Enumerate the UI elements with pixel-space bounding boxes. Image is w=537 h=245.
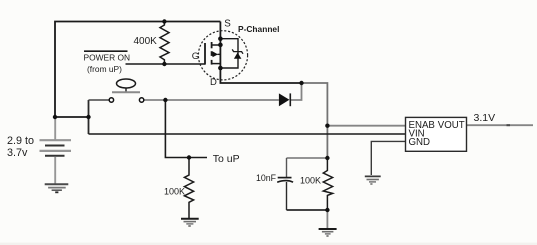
- svg-text:POWER ON: POWER ON: [84, 53, 131, 63]
- wire To-uP branch vertical and horizontal: [165, 100, 189, 158]
- switch S1 left contact: [109, 98, 113, 102]
- switch S1 right contact: [139, 98, 143, 102]
- junction dot 400K top: [162, 19, 166, 23]
- wire To-uP stub: [189, 157, 207, 159]
- ground under R2: [181, 218, 199, 220]
- wire gate line POWER ON to MOSFET gate: [126, 63, 206, 65]
- ground under main node: [319, 228, 337, 230]
- switch S1 bar (gray): [112, 91, 140, 93]
- regulator U1 box: [406, 117, 467, 151]
- svg-text:400K: 400K: [134, 36, 158, 47]
- switch S1 pushbutton actuator: [117, 79, 136, 88]
- junction dot 400K bottom / gate wire: [162, 62, 166, 66]
- wire VOUT 3.1V output (gray): [467, 124, 534, 126]
- transistor Q1 source stub: [212, 44, 221, 46]
- svg-text:G: G: [192, 51, 199, 62]
- wire ENAB line (gray): [327, 125, 405, 127]
- svg-text:3.7v: 3.7v: [7, 147, 28, 159]
- capacitor C1 curved plate: [277, 181, 293, 183]
- svg-text:VOUT: VOUT: [438, 120, 465, 131]
- svg-text:100K: 100K: [300, 175, 321, 185]
- junction dot RC bottom: [325, 208, 329, 212]
- wire VIN line from battery node to regulator: [89, 133, 406, 135]
- resistor R3 100K (hold-up): [323, 158, 332, 210]
- faint scan band at bottom edge: [0, 243, 537, 245]
- svg-text:2.9 to: 2.9 to: [7, 135, 34, 147]
- wire junction to diode anode (gray): [165, 99, 279, 101]
- resistor R1 400K: [160, 22, 169, 65]
- wire regulator GND lead: [371, 141, 405, 175]
- wire button left leg and VIN drop: [88, 100, 90, 134]
- battery B1 plate short 1: [45, 145, 65, 147]
- node battery junction wire: [55, 116, 89, 118]
- svg-text:GND: GND: [409, 137, 431, 148]
- ground under regulator GND: [365, 175, 381, 177]
- wire RC top rail (gray): [287, 157, 328, 159]
- junction dot button to diode node: [163, 98, 167, 102]
- svg-text:S: S: [224, 19, 231, 30]
- svg-text:3.1V: 3.1V: [474, 112, 496, 124]
- junction dots on MOSFET backbone: [218, 36, 223, 41]
- wire button left contact lead: [89, 99, 110, 101]
- junction dot diode joins drain wire: [299, 81, 303, 85]
- svg-text:D: D: [210, 77, 217, 88]
- battery B1 plate long 1: [40, 139, 72, 141]
- svg-text:(from uP): (from uP): [87, 64, 122, 74]
- transistor Q1 body-diode branch: [220, 39, 238, 68]
- transistor Q1 channel segments: [211, 42, 213, 48]
- transistor Q1 body diode (cathode bar with ticks): [232, 49, 243, 53]
- ground under battery: [45, 183, 69, 185]
- junction dot ENAB tap: [325, 124, 329, 128]
- svg-text:10nF: 10nF: [256, 173, 277, 183]
- wire drain run (gray) to main node vertical: [302, 83, 328, 158]
- diode D1: [279, 93, 290, 106]
- junction dot battery node right: [86, 115, 90, 119]
- transistor Q1 P-Channel MOSFET circle: [198, 31, 247, 80]
- battery B1 plate long 2: [40, 150, 72, 152]
- transistor Q1 body arrow (points right, P-channel): [213, 51, 219, 57]
- battery B1 plate short 2: [45, 155, 65, 157]
- wire button right contact lead to junction: [144, 99, 166, 101]
- svg-text:To uP: To uP: [213, 153, 240, 165]
- battery B1 stem bottom (gray): [54, 157, 56, 185]
- wire RC bottom rail: [287, 209, 328, 211]
- label POWER ON (active low overline): [84, 50, 128, 52]
- resistor R2 100K (to uP pulldown): [184, 158, 193, 219]
- wire capacitor top lead: [286, 158, 288, 177]
- wire MOSFET source/backbone/drain vertical and drain run: [220, 22, 301, 84]
- transistor Q1 gate bar: [204, 43, 206, 65]
- tick on VOUT line: [507, 124, 511, 126]
- wire capacitor bottom lead: [286, 182, 288, 210]
- wire main node to ground stem (gray): [326, 210, 328, 229]
- wire diode cathode to drain node: [290, 83, 301, 100]
- junction dot To-uP node: [187, 155, 191, 159]
- svg-text:100K: 100K: [164, 187, 185, 197]
- junction dot RC top: [325, 156, 329, 160]
- junction dot battery node left: [53, 115, 57, 119]
- capacitor C1 10nF flat plate: [278, 177, 292, 179]
- battery B1 stem top (gray): [54, 118, 56, 140]
- svg-text:P-Channel: P-Channel: [238, 24, 279, 34]
- transistor Q1 drain stub: [212, 63, 221, 65]
- wire top rail from battery+ to MOSFET source: [55, 22, 220, 118]
